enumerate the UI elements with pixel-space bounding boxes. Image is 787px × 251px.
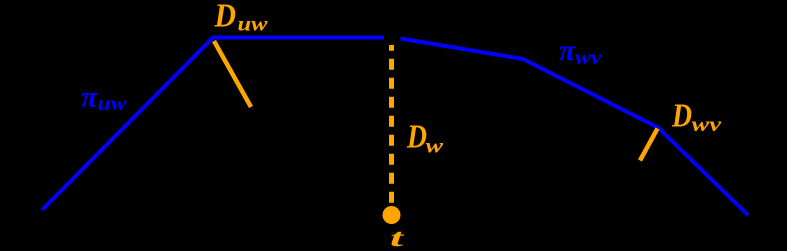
wire: blue path u-to-w (left polyline) xyxy=(42,38,384,211)
segment D_wv (orange tick at right bend) xyxy=(640,129,658,161)
dashed line D_w from path down to t xyxy=(389,45,394,203)
wire: blue path w-to-v (right polyline) xyxy=(401,39,749,216)
segment D_uw (orange tick at peak) xyxy=(214,41,251,107)
svg-text:t: t xyxy=(390,225,405,251)
node t (orange dot) xyxy=(383,206,401,224)
